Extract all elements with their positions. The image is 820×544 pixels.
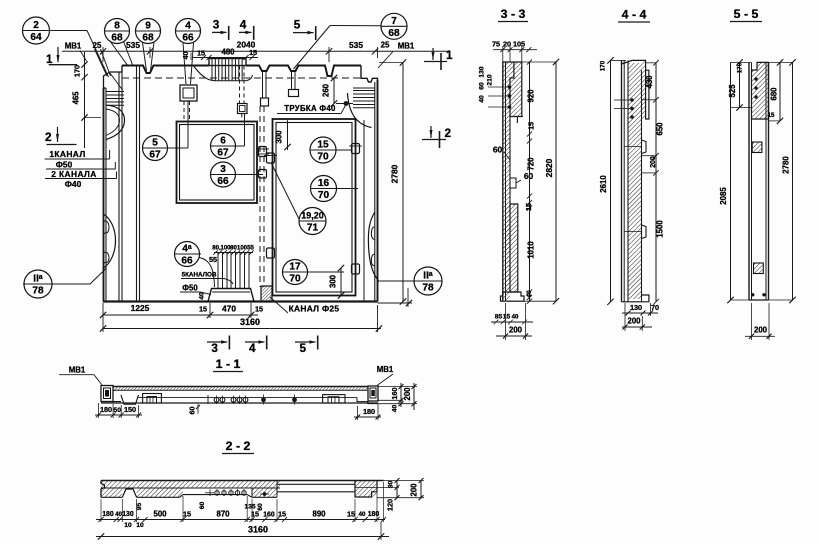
ruler 480 over channel block [193,57,258,59]
mv1 leader right [378,52,393,69]
svg-text:100: 100 [237,246,248,252]
section 2-2 hatch band [101,481,280,488]
svg-text:19,20: 19,20 [301,211,323,221]
bottom right short dim [378,302,413,304]
svg-text:260: 260 [322,83,331,97]
section mark 4 bottom [245,341,265,343]
svg-text:70: 70 [289,274,301,285]
callout IIa/78 left [24,270,52,298]
callout 19,20/71 [299,208,326,235]
section 2-2 thin field right [277,483,355,485]
svg-text:15: 15 [199,305,207,314]
section mark 5 bottom [295,341,316,343]
tie opening2 left border upper [267,153,275,163]
svg-text:15: 15 [278,510,286,519]
section 4-4 left face [621,60,623,301]
svg-text:3 - 3: 3 - 3 [501,7,526,21]
svg-text:3160: 3160 [248,525,268,535]
opening 2 double border [273,119,356,296]
svg-text:40: 40 [199,292,206,300]
section 2-2 dims row [96,519,385,521]
svg-text:95: 95 [136,503,143,511]
dim 300 opening2 top [287,121,289,150]
svg-text:70: 70 [317,152,329,163]
svg-text:5: 5 [152,138,158,149]
svg-text:68: 68 [388,28,400,39]
svg-text:15: 15 [183,510,191,519]
svg-text:15: 15 [524,203,533,211]
section 3-3 face hatch strip [503,62,510,301]
svg-text:17: 17 [289,262,301,273]
svg-text:67: 67 [149,150,161,161]
section 2-2 right end block [355,481,377,497]
channel fan ruler [214,252,253,254]
svg-text:Ф40: Ф40 [65,179,82,189]
svg-text:465: 465 [72,91,81,105]
svg-text:15: 15 [527,122,536,130]
svg-text:200: 200 [403,387,412,401]
svg-text:9: 9 [145,21,151,32]
svg-text:55: 55 [247,246,254,252]
top-left corner detail [104,66,123,89]
svg-text:10: 10 [136,522,144,529]
section 5-5 bottom dim 200 [745,335,775,337]
dim 260 at top right [333,78,335,104]
svg-text:2 КАНАЛА: 2 КАНАЛА [51,169,96,179]
right edge C-void with lugs [368,212,379,282]
tie on centerline lower [259,170,267,179]
top edge continued with notches [246,66,361,77]
svg-text:66: 66 [217,176,229,187]
svg-text:180: 180 [102,511,114,518]
section 3-3 middle web [509,117,511,205]
top-right corner step [361,66,378,83]
svg-text:105: 105 [513,40,525,49]
section 1-1 dims right side [400,383,402,407]
svg-text:920: 920 [527,89,536,103]
section 2-2 top edge [101,480,384,482]
mv1 leader left [80,51,87,62]
svg-text:50: 50 [114,407,122,414]
left edge C-void with lugs [104,214,116,268]
section 5-5 faces [748,62,750,300]
section 2-2 dim 3160 [96,536,389,538]
callout 3/66 [211,162,236,187]
svg-text:150: 150 [124,405,136,414]
svg-text:МВ1: МВ1 [377,365,394,374]
svg-text:170: 170 [737,62,744,73]
section 2-2 extension lines [100,499,102,522]
curve leader from callout 4a [200,258,215,288]
svg-text:535: 535 [126,40,140,50]
callout IIa/78 right [414,267,442,295]
svg-text:300: 300 [275,130,284,144]
svg-text:16: 16 [318,178,330,189]
section 3-3 bottom foot [501,292,525,301]
svg-text:15: 15 [503,314,511,321]
tie opening2 right border lower [352,264,360,274]
svg-text:1225: 1225 [131,303,150,313]
svg-text:3160: 3160 [240,317,260,327]
section 3-3 left face [502,62,504,301]
svg-text:70: 70 [651,303,659,312]
callout 6/67 [211,134,236,159]
svg-text:170: 170 [73,65,82,77]
svg-text:15: 15 [197,49,205,58]
svg-text:60: 60 [188,406,197,414]
svg-text:430: 430 [645,75,654,89]
svg-text:71: 71 [307,223,319,234]
svg-text:1КАНАЛ: 1КАНАЛ [49,149,85,159]
plate C small square [261,98,269,106]
section 1-1 right anchor [368,386,378,401]
callout 9/68 [136,19,161,44]
svg-text:40: 40 [392,405,399,413]
svg-text:78: 78 [32,286,44,297]
section 1-1 rebar dots [214,397,219,402]
svg-text:170: 170 [600,60,607,71]
section 2-2 left end block [101,488,122,497]
callout 8/68 [105,19,130,44]
svg-text:120: 120 [386,499,395,511]
section 5-5 bottom dots [751,293,754,296]
channel exit block at bottom [261,286,272,302]
svg-text:60: 60 [524,171,534,181]
svg-text:5: 5 [299,342,306,355]
section 2-2 groove trapezoid [122,489,136,497]
extension lines bottom [102,303,104,332]
section 1-1 rib trapezoid [121,395,139,404]
section 5-5 tie square lower [754,263,764,274]
section 2-2 thin field left [183,494,247,496]
left vertical dimension chain [84,52,86,148]
right edge ladder detail [353,90,375,92]
svg-text:66: 66 [182,33,194,44]
section 2-2 field rebar dots [215,491,219,495]
callout 4/66 [176,19,201,44]
svg-text:720: 720 [527,157,536,171]
svg-text:25: 25 [381,41,390,50]
section 3-3 right dim chain [529,62,531,301]
svg-text:3: 3 [211,342,218,355]
section 4-4 top cap [622,60,649,119]
section 4-4 left dims [610,60,612,301]
callout 5/67 [143,136,168,161]
plate B with inner square [238,104,248,114]
svg-text:60: 60 [257,503,264,511]
section 1-1 dims right bottom [354,416,381,418]
panel left edge lines [103,88,105,302]
tie on centerline upper [259,147,267,157]
svg-text:75: 75 [492,40,500,49]
callout 4a/66 [175,242,200,267]
section 1-1 channel block left [143,394,162,404]
svg-text:890: 890 [312,510,326,519]
svg-text:5КАНАЛОВ: 5КАНАЛОВ [182,272,217,279]
svg-text:200: 200 [509,326,523,335]
svg-text:300: 300 [329,274,338,288]
section 1-1 slab top band [113,386,368,388]
svg-text:IIᵃ: IIᵃ [33,274,43,285]
svg-text:IIᵃ: IIᵃ [423,271,433,282]
svg-text:78: 78 [422,283,434,294]
svg-text:180: 180 [368,511,380,518]
svg-text:2 - 2: 2 - 2 [226,439,251,453]
section mark 3 top [212,31,227,33]
svg-text:500: 500 [153,510,167,519]
svg-text:210: 210 [487,74,494,85]
svg-text:1010: 1010 [527,241,536,259]
section 1-1 right end step [357,398,367,403]
svg-text:2: 2 [45,131,52,144]
svg-text:68: 68 [142,33,154,44]
svg-text:470: 470 [222,304,236,314]
flange plate A below top edge [180,85,197,101]
panel plan outline top edge [122,66,209,74]
svg-text:870: 870 [216,510,230,519]
vertical dashed channel centerlines [259,106,261,287]
channel fan lines [217,253,219,289]
svg-text:68: 68 [111,33,123,44]
opening 1 double border [177,122,258,204]
section 3-3 lower block [510,204,518,292]
left edge ladder detail [106,91,124,93]
dim 300 opening2 bottom [340,268,342,296]
svg-text:55: 55 [209,255,217,264]
dashed face line below top edge [122,77,361,79]
svg-text:60: 60 [479,82,486,90]
svg-text:3: 3 [220,164,226,175]
section 3-3 top block [503,62,522,117]
svg-text:15: 15 [768,112,775,119]
svg-text:15: 15 [347,510,355,519]
svg-text:5: 5 [294,19,301,32]
callout 17/70 [283,260,308,285]
callout 2/64 [23,17,50,44]
svg-text:2820: 2820 [544,158,554,177]
callout 15/70 [310,137,336,163]
bottom trapezoid protrusion [208,289,254,302]
svg-text:7: 7 [391,16,397,27]
tie opening2 right border upper [352,144,360,154]
section mark 1 right [424,61,447,63]
svg-text:3: 3 [213,18,220,31]
svg-text:1500: 1500 [656,220,665,238]
svg-text:10: 10 [124,522,132,529]
svg-text:200: 200 [410,483,419,497]
section 5-5 top block dots [754,77,757,80]
section 4-4 right dim chain [655,63,657,302]
svg-text:8: 8 [114,21,120,32]
tie opening2 left border lower [267,248,275,258]
section 3-3 top dims [493,49,537,51]
svg-text:680: 680 [770,87,779,101]
section 4-4 bottom dims [622,312,658,314]
plate D small square [289,90,299,97]
section 1-1 left end underside [101,401,121,403]
svg-text:40: 40 [512,314,519,321]
callout 16/70 [311,176,337,202]
section 4-4 body hatched [628,63,642,299]
section 4-4 right loops [642,140,647,154]
svg-text:60: 60 [199,502,206,510]
top dimension line [62,50,450,52]
dashed stems from plate A to opening 1 [183,101,185,122]
dim 2780 right side [402,63,404,302]
svg-text:15: 15 [255,305,263,314]
section 4-4 top dots [630,98,634,102]
svg-text:85: 85 [495,314,503,321]
svg-text:160: 160 [263,512,275,519]
svg-text:4 - 4: 4 - 4 [622,8,647,22]
svg-text:15: 15 [249,48,257,57]
section 3-3 dim 2820 [555,62,557,301]
svg-text:60: 60 [493,145,503,155]
section mark 4 top [239,31,252,33]
svg-text:160: 160 [390,387,399,399]
left edge bulb detail [106,105,125,139]
svg-text:МВ1: МВ1 [65,42,82,51]
svg-text:67: 67 [217,148,229,159]
svg-text:МВ1: МВ1 [69,366,86,375]
raised channel block on top edge [209,59,246,66]
section 5-5 tie square upper [752,142,762,153]
svg-text:4: 4 [185,21,191,32]
svg-text:КАНАЛ Ф25: КАНАЛ Ф25 [289,304,340,314]
section 3-3 bottom dims [491,321,533,323]
svg-text:130: 130 [122,511,134,518]
svg-text:2085: 2085 [719,187,728,205]
svg-text:130: 130 [630,303,642,312]
section 5-5 right dims [779,62,781,121]
svg-text:40: 40 [479,95,486,103]
svg-text:2: 2 [445,127,452,140]
stems below second notch to plate D [291,71,293,90]
svg-text:180: 180 [363,407,375,416]
svg-text:1 - 1: 1 - 1 [216,357,241,371]
svg-text:Ф50: Ф50 [182,284,198,293]
svg-text:6: 6 [220,136,226,147]
svg-text:Ф50: Ф50 [56,160,73,170]
panel right edge [377,80,379,302]
svg-text:40: 40 [359,511,366,518]
svg-text:535: 535 [349,40,363,50]
section 1-1 slab bottom [101,402,378,404]
svg-text:525: 525 [728,84,737,98]
svg-text:40: 40 [526,290,533,298]
bottom dim line 1 [103,314,258,316]
svg-text:4: 4 [249,342,256,355]
svg-text:2: 2 [33,20,39,31]
svg-text:70: 70 [318,190,330,201]
svg-text:15: 15 [317,140,329,151]
section 3-3 top block dots [508,85,512,89]
section mark 3 bottom [207,341,227,343]
svg-text:66: 66 [181,256,193,267]
section 5-5 top block [752,62,769,119]
svg-text:130: 130 [479,66,486,77]
section 4-4 bottom foot [622,295,649,302]
section 2-2 mid thick region [137,488,183,497]
svg-text:1: 1 [446,49,453,62]
stems below first notch to plate C [262,71,264,98]
svg-text:64: 64 [30,32,42,43]
svg-text:40: 40 [181,51,190,59]
section 1-1 dims left [95,414,142,416]
bottom dim line 2 3160 [103,328,381,330]
svg-text:4: 4 [240,18,247,31]
svg-text:180: 180 [100,405,112,414]
svg-text:МВ1: МВ1 [398,42,415,51]
svg-text:200: 200 [650,156,657,168]
svg-text:ТРУБКА Ф40: ТРУБКА Ф40 [284,104,336,113]
svg-text:480: 480 [221,48,235,57]
section 5-5 left dims [739,62,741,107]
svg-text:200: 200 [754,326,768,335]
fan-out arc left of channel block [194,67,215,81]
svg-text:650: 650 [656,122,665,136]
svg-text:2780: 2780 [782,156,791,174]
section 1-1 left anchor [101,386,113,402]
svg-text:200: 200 [627,317,641,326]
section mark 2 right [422,139,446,141]
callout 7/68 [381,13,407,39]
stems from channel block to plate B [239,66,241,104]
svg-text:5 - 5: 5 - 5 [734,7,759,21]
section 1-1 channel block right [323,395,345,403]
panel bottom edge [103,300,378,302]
svg-text:4ᵃ: 4ᵃ [182,244,192,255]
svg-text:2780: 2780 [390,164,400,183]
section 3-3 middle step [510,178,516,188]
svg-text:2610: 2610 [599,175,608,193]
section 5-5 bottom edge [749,299,769,301]
section 2-2 right side dims [396,481,398,498]
section mark 5 top [293,32,314,34]
section 2-2 block 160 [252,488,277,497]
